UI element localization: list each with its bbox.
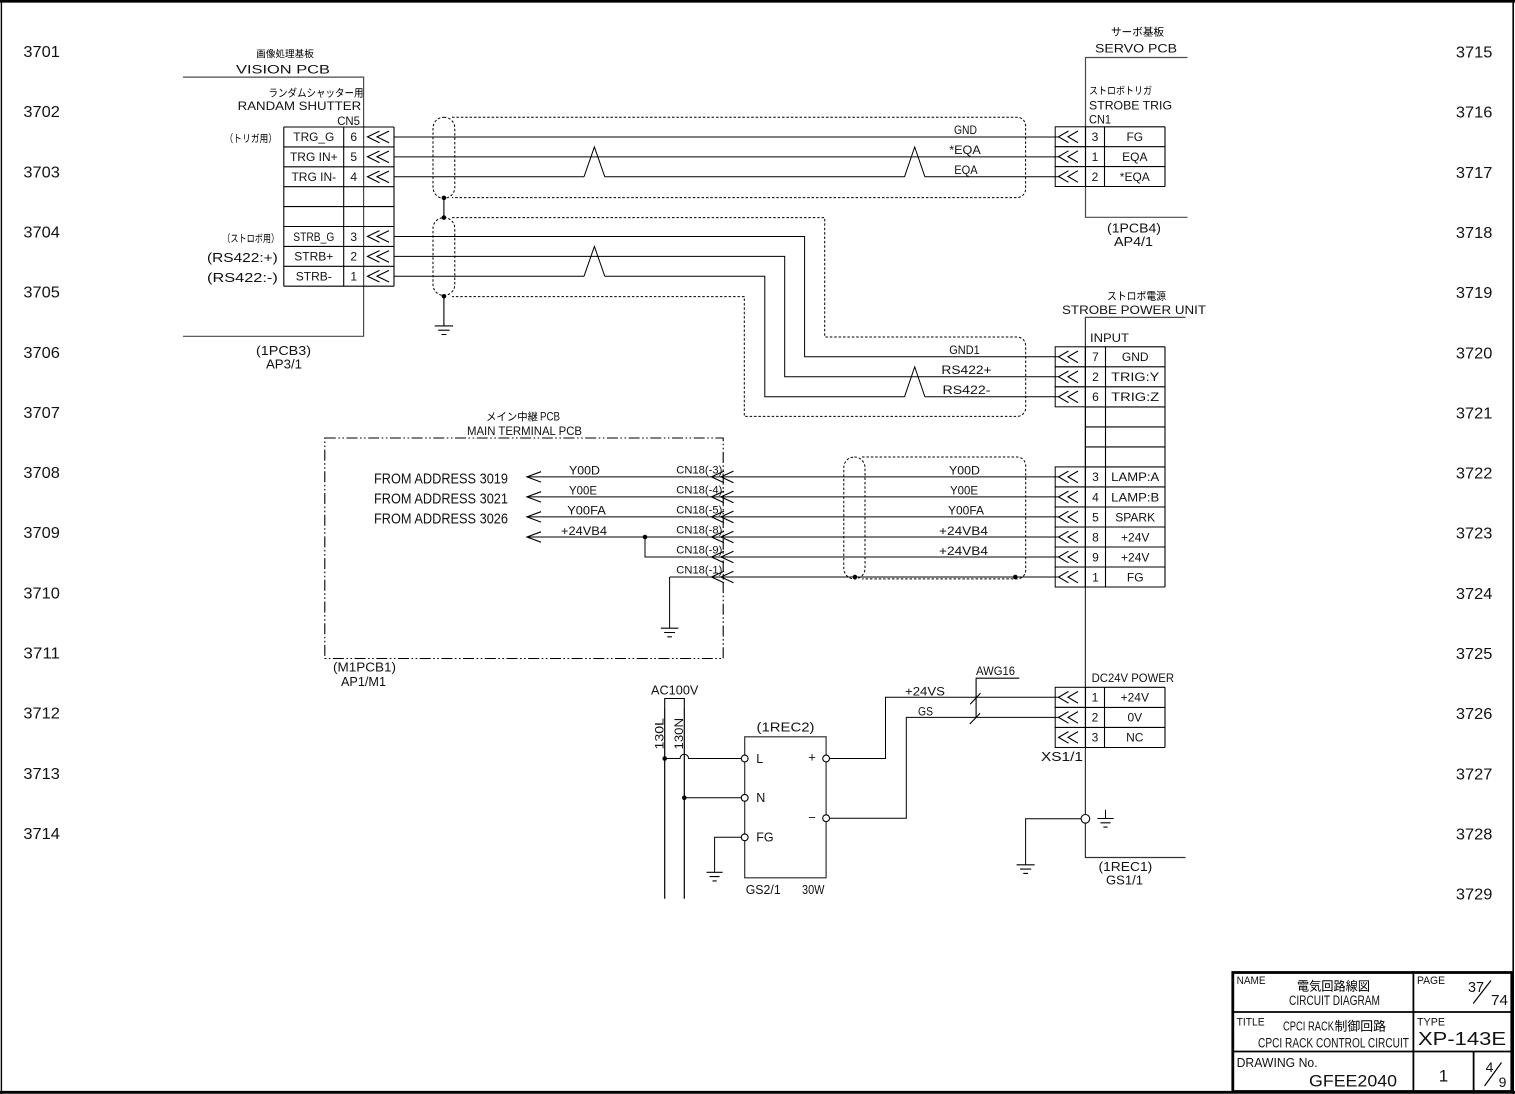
svg-text:EQA: EQA	[954, 163, 977, 177]
svg-text:GND: GND	[954, 123, 977, 137]
board outline VISION PCB (1PCB3)	[183, 77, 364, 336]
wire 130N (AC neutral)	[683, 707, 685, 899]
svg-text:GND: GND	[1122, 350, 1149, 364]
svg-text:30W: 30W	[802, 883, 825, 897]
wire Y00D (CN18 to INPUT)	[527, 476, 1059, 478]
connector CN5 pin arrows	[368, 131, 390, 282]
svg-text:CN5: CN5	[337, 114, 360, 128]
svg-text:MAIN TERMINAL PCB: MAIN TERMINAL PCB	[467, 424, 582, 438]
svg-text:3718: 3718	[1456, 225, 1493, 242]
svg-text:3705: 3705	[23, 285, 60, 302]
svg-text:SERVO PCB: SERVO PCB	[1095, 41, 1177, 55]
wire GND (TRG_G to CN1 pin3 FG)	[394, 136, 1059, 138]
svg-text:FROM ADDRESS 3026: FROM ADDRESS 3026	[374, 511, 508, 528]
svg-text:RS422+: RS422+	[941, 363, 991, 377]
svg-text:3: 3	[1092, 470, 1099, 484]
label サーボ基板	[1112, 27, 1164, 37]
svg-text:1: 1	[1092, 691, 1099, 705]
wire *EQA (TRG IN+ to CN1 pin1)	[394, 156, 1059, 158]
label ストロボ電源	[1108, 291, 1166, 301]
svg-text:LAMP:B: LAMP:B	[1111, 490, 1159, 504]
svg-text:FROM ADDRESS 3021: FROM ADDRESS 3021	[374, 491, 508, 508]
svg-text:2: 2	[1092, 170, 1099, 184]
svg-text:STRB_G: STRB_G	[293, 230, 334, 244]
svg-text:GS1/1: GS1/1	[1106, 873, 1143, 888]
svg-text:STROBE TRIG: STROBE TRIG	[1089, 99, 1172, 113]
twisted pair mark (RS422 pair, right)	[905, 367, 925, 397]
svg-text:5: 5	[350, 150, 357, 164]
shield tie wire	[443, 198, 445, 218]
ground (CN5 cable shield)	[435, 296, 453, 334]
cable shield run (lamp bundle)	[862, 457, 1026, 579]
wire FG shield drain CN18(-1)	[670, 576, 1059, 578]
shield drain dot right	[1013, 575, 1018, 580]
svg-text:3: 3	[350, 230, 357, 244]
svg-text:2: 2	[350, 250, 357, 264]
label 画像処理基板	[257, 49, 314, 58]
connector CN5 table	[284, 127, 394, 286]
svg-text:74: 74	[1491, 992, 1508, 1009]
svg-text:AWG16: AWG16	[976, 664, 1015, 678]
svg-text:XS1/1: XS1/1	[1041, 750, 1083, 764]
ground (0V)	[1017, 865, 1035, 874]
svg-text:Y00FA: Y00FA	[948, 504, 984, 518]
svg-text:DRAWING No.: DRAWING No.	[1237, 1056, 1318, 1070]
svg-text:3723: 3723	[1456, 526, 1493, 543]
label ランダムシャッター用	[270, 88, 363, 98]
svg-text:8: 8	[1092, 530, 1099, 544]
svg-text:CPCI RACK CONTROL CIRCUIT: CPCI RACK CONTROL CIRCUIT	[1258, 1035, 1409, 1050]
svg-text:STRB+: STRB+	[294, 250, 333, 264]
svg-text:130N: 130N	[672, 718, 686, 750]
svg-text:GS: GS	[918, 705, 933, 719]
svg-text:3722: 3722	[1456, 466, 1493, 483]
AC100V bracket	[665, 699, 685, 708]
svg-text:(M1PCB1): (M1PCB1)	[333, 660, 396, 675]
junction dot +24VB4 branch	[643, 535, 648, 540]
svg-text:TRIG:Z: TRIG:Z	[1111, 390, 1159, 404]
terminal -	[823, 815, 830, 822]
wire +24VB4 branch to CN18(-9)	[645, 537, 1059, 557]
shield drain dot left	[853, 575, 858, 580]
svg-text:3706: 3706	[23, 345, 60, 362]
svg-text:3: 3	[1092, 130, 1099, 144]
power supply (1REC2) box	[745, 737, 826, 878]
wire +24VS	[830, 697, 1059, 758]
wire Y00FA (CN18 to INPUT)	[527, 516, 1059, 518]
svg-text:2: 2	[1092, 370, 1099, 384]
svg-text:PAGE: PAGE	[1417, 975, 1445, 987]
ground (1REC2 FG)	[707, 872, 723, 881]
svg-text:FG: FG	[1126, 130, 1143, 144]
connector CN1 arrow cells	[1055, 127, 1085, 187]
svg-text:3709: 3709	[23, 525, 60, 542]
svg-text:Y00D: Y00D	[569, 464, 600, 478]
wire STRB- / RS422- (to INPUT pin6)	[394, 276, 1059, 397]
arrow into PCB Y00D	[527, 472, 541, 482]
svg-text:130L: 130L	[652, 718, 666, 750]
svg-text:9: 9	[1092, 550, 1099, 564]
twisted pair mark (STRB pair, left)	[584, 246, 605, 276]
svg-text:9: 9	[1499, 1074, 1507, 1090]
svg-text:STROBE POWER UNIT: STROBE POWER UNIT	[1062, 303, 1207, 317]
svg-text:3717: 3717	[1456, 165, 1493, 182]
svg-text:AP1/M1: AP1/M1	[341, 674, 386, 689]
svg-text:CPCI RACK: CPCI RACK	[1283, 1019, 1334, 1034]
wire EQA (TRG IN- to CN1 pin2)	[394, 176, 1059, 178]
svg-text:TITLE: TITLE	[1237, 1016, 1265, 1028]
terminal FG	[741, 834, 748, 841]
wire +24VB4 (CN18 to INPUT)	[527, 536, 1059, 538]
svg-text:CN1: CN1	[1089, 113, 1111, 127]
wire 130L (AC line)	[664, 707, 666, 899]
svg-text:Y00E: Y00E	[950, 484, 978, 498]
svg-text:GS2/1: GS2/1	[746, 883, 781, 897]
svg-text:5: 5	[1092, 510, 1099, 524]
svg-text:1: 1	[1092, 150, 1099, 164]
wire GS	[830, 717, 1059, 818]
svg-text:3704: 3704	[23, 225, 60, 242]
svg-text:Y00FA: Y00FA	[567, 504, 606, 518]
svg-text:PCB: PCB	[540, 410, 560, 424]
svg-text:+24V: +24V	[1121, 691, 1149, 705]
svg-text:+24VS: +24VS	[905, 685, 945, 699]
svg-text:NC: NC	[1126, 731, 1144, 745]
svg-text:GFEE2040: GFEE2040	[1309, 1073, 1397, 1091]
svg-text:−: −	[808, 810, 816, 825]
svg-text:6: 6	[1092, 390, 1099, 404]
svg-text:TRG IN-: TRG IN-	[291, 170, 336, 184]
svg-text:XP-143E: XP-143E	[1418, 1029, 1506, 1049]
left rung numbers 3701-3714	[23, 44, 60, 843]
label (ストロボ用)	[228, 233, 274, 243]
chassis ground mark beside terminal	[1105, 810, 1107, 819]
connector INPUT table	[1085, 347, 1165, 587]
svg-text:GND1: GND1	[949, 343, 980, 357]
svg-text:TRIG:Y: TRIG:Y	[1111, 370, 1159, 384]
shield junction dot 3	[442, 294, 447, 299]
connector CN18 edge arrows	[712, 471, 734, 583]
svg-text:AC100V: AC100V	[651, 684, 699, 698]
terminal L	[741, 755, 748, 762]
svg-text:FROM ADDRESS 3019: FROM ADDRESS 3019	[374, 471, 508, 488]
svg-text:4: 4	[350, 170, 357, 184]
svg-text:6: 6	[350, 130, 357, 144]
svg-text:3713: 3713	[23, 766, 60, 783]
svg-text:(RS422:-): (RS422:-)	[207, 271, 278, 285]
wire FG to ground	[715, 837, 742, 872]
svg-text:TYPE: TYPE	[1417, 1016, 1445, 1028]
cable shield oval at CN5 (TRG group)	[433, 117, 455, 198]
connector INPUT arrow cells	[1055, 347, 1085, 587]
svg-text:3720: 3720	[1456, 345, 1493, 362]
arrow into PCB +24VB4	[527, 532, 541, 542]
svg-text:(1REC2): (1REC2)	[757, 720, 815, 735]
board outline SERVO PCB (1PCB4)	[1086, 58, 1188, 218]
svg-text:SPARK: SPARK	[1115, 510, 1155, 524]
svg-text:0V: 0V	[1127, 711, 1142, 725]
svg-text:(RS422:+): (RS422:+)	[207, 251, 278, 265]
connector XS1 table	[1086, 687, 1166, 747]
twisted pair mark (EQA pair, right)	[905, 147, 925, 177]
svg-text:*EQA: *EQA	[949, 143, 981, 157]
cable shield run (GND/EQA pair to CN1)	[452, 117, 1026, 197]
svg-text:3728: 3728	[1456, 826, 1493, 843]
terminal +	[823, 755, 830, 762]
svg-text:LAMP:A: LAMP:A	[1111, 470, 1159, 484]
svg-text:3708: 3708	[23, 465, 60, 482]
svg-text:3702: 3702	[23, 104, 60, 121]
wire STRB+ / RS422+ (to INPUT pin2)	[394, 256, 1059, 376]
shield junction dot 1	[442, 196, 447, 201]
arrow into PCB Y00FA	[527, 512, 541, 522]
arrow into PCB Y00E	[527, 492, 541, 502]
svg-text:EQA: EQA	[1122, 150, 1147, 164]
right rung numbers 3715-3729	[1456, 45, 1493, 904]
junction dot on 130N	[682, 796, 687, 801]
terminal circle (1REC1 0V)	[1081, 815, 1090, 824]
svg-text:3: 3	[1092, 731, 1099, 745]
svg-text:CIRCUIT DIAGRAM: CIRCUIT DIAGRAM	[1289, 993, 1380, 1008]
svg-text:+: +	[808, 749, 816, 764]
svg-text:TRG_G: TRG_G	[293, 130, 334, 144]
label ストロボトリガ	[1090, 86, 1152, 95]
svg-text:3710: 3710	[23, 585, 60, 602]
svg-text:1: 1	[1439, 1067, 1448, 1086]
wire Y00E (CN18 to INPUT)	[527, 496, 1059, 498]
svg-text:NAME: NAME	[1237, 975, 1266, 987]
connector CN1 table	[1086, 127, 1166, 187]
svg-text:Y00D: Y00D	[949, 464, 980, 478]
junction dot on 130L	[662, 756, 667, 761]
svg-text:+24VB4: +24VB4	[561, 524, 607, 538]
svg-text:+24VB4: +24VB4	[939, 544, 988, 558]
cable shield run (STRB bundle to INPUT)	[452, 218, 1026, 417]
svg-text:7: 7	[1092, 350, 1099, 364]
wire 0V to ground	[1026, 819, 1082, 865]
svg-text:3719: 3719	[1456, 285, 1493, 302]
cable shield oval (lamp bundle left)	[844, 457, 865, 579]
svg-text:AP4/1: AP4/1	[1114, 234, 1153, 249]
wire STRB_G / GND1 (to INPUT pin7)	[394, 237, 1059, 357]
label 電気回路線図	[1298, 980, 1369, 992]
svg-text:Y00E: Y00E	[569, 484, 597, 498]
svg-text:+24VB4: +24VB4	[939, 524, 988, 538]
svg-text:4: 4	[1486, 1059, 1494, 1075]
svg-text:3727: 3727	[1456, 766, 1493, 783]
svg-text:3721: 3721	[1456, 405, 1493, 422]
svg-text:3724: 3724	[1456, 586, 1493, 603]
svg-text:3701: 3701	[23, 44, 60, 61]
svg-text:4: 4	[1092, 490, 1099, 504]
twisted pair mark (TRG pair, left)	[584, 147, 605, 177]
svg-text:+24V: +24V	[1121, 530, 1149, 544]
ground (CN18(-1) wire)	[669, 577, 671, 628]
svg-text:N: N	[756, 791, 765, 805]
svg-text:3715: 3715	[1456, 45, 1493, 62]
svg-text:AP3/1: AP3/1	[266, 356, 302, 371]
svg-text:3729: 3729	[1456, 887, 1493, 904]
label メイン中継PCB	[487, 411, 537, 421]
svg-text:1: 1	[1092, 570, 1099, 584]
svg-text:3703: 3703	[23, 164, 60, 181]
svg-text:RS422-: RS422-	[943, 383, 991, 397]
svg-text:TRG IN+: TRG IN+	[290, 150, 338, 164]
svg-text:*EQA: *EQA	[1120, 170, 1150, 184]
terminal N	[741, 794, 748, 801]
svg-text:3712: 3712	[23, 706, 60, 723]
svg-text:RANDAM SHUTTER: RANDAM SHUTTER	[238, 99, 362, 113]
svg-text:FG: FG	[756, 831, 773, 845]
svg-text:3725: 3725	[1456, 646, 1493, 663]
svg-text:3726: 3726	[1456, 706, 1493, 723]
unit outline STROBE POWER UNIT	[1085, 317, 1185, 857]
svg-text:FG: FG	[1127, 570, 1144, 584]
connector XS1 arrow cells	[1055, 687, 1085, 747]
title block frame	[1233, 973, 1512, 1092]
svg-text:3714: 3714	[23, 826, 60, 843]
wire L feed with hop over 130N	[665, 754, 742, 758]
svg-text:STRB-: STRB-	[296, 270, 332, 284]
wire N feed	[684, 797, 741, 799]
svg-text:+24V: +24V	[1121, 550, 1149, 564]
svg-text:VISION PCB: VISION PCB	[236, 62, 330, 76]
svg-text:3716: 3716	[1456, 105, 1493, 122]
label (トリガ用)	[231, 133, 271, 143]
cable shield oval at CN5 (STRB group)	[433, 218, 455, 296]
svg-text:2: 2	[1092, 711, 1099, 725]
svg-text:DC24V POWER: DC24V POWER	[1092, 671, 1175, 685]
svg-text:3707: 3707	[23, 405, 60, 422]
shield junction dot 2	[442, 215, 447, 220]
svg-text:1: 1	[350, 270, 357, 284]
board outline MAIN TERMINAL PCB (M1PCB1) dash-dot box	[325, 438, 723, 659]
svg-text:L: L	[756, 752, 763, 766]
svg-text:INPUT: INPUT	[1090, 331, 1130, 345]
svg-text:3711: 3711	[23, 646, 60, 663]
